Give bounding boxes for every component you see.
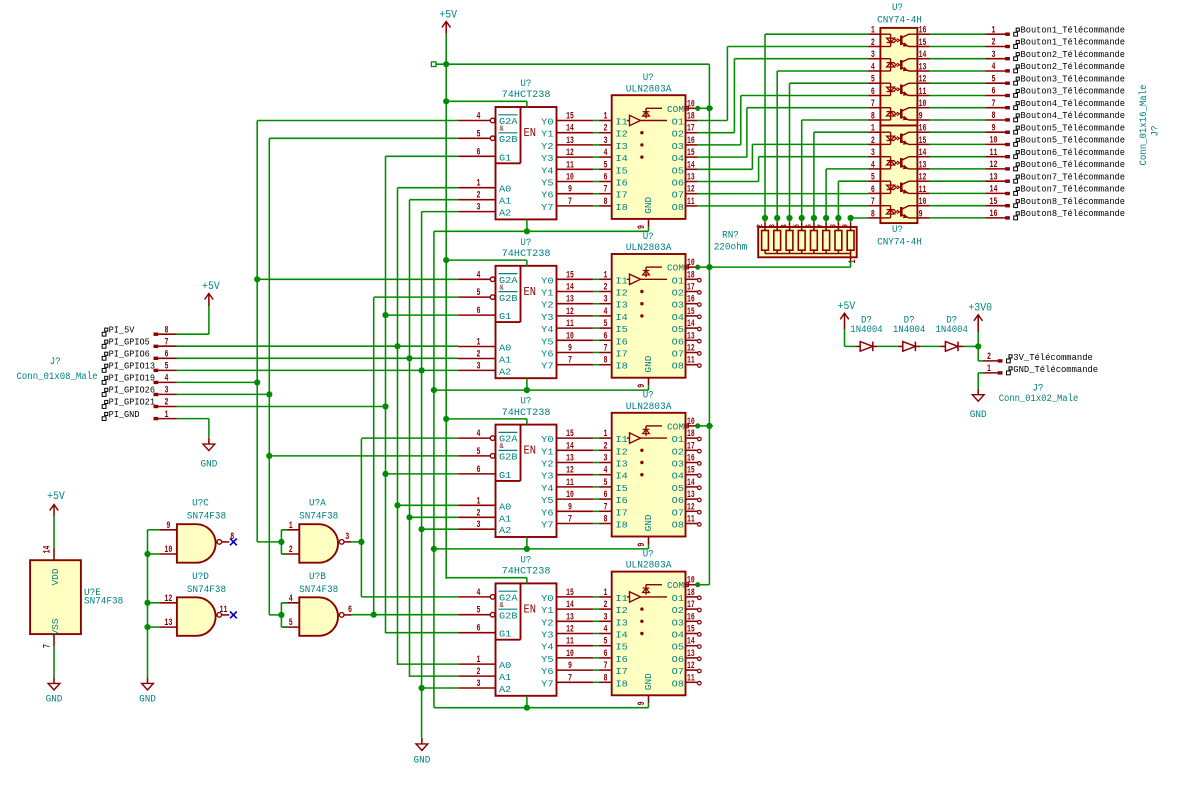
svg-text:O8: O8 (672, 678, 685, 689)
svg-text:8: 8 (165, 325, 169, 336)
svg-text:COM: COM (667, 263, 684, 274)
svg-text:I4: I4 (616, 471, 629, 482)
svg-text:12: 12 (687, 185, 695, 196)
svg-text:16: 16 (687, 454, 695, 465)
svg-text:Y6: Y6 (541, 666, 554, 677)
svg-text:14: 14 (990, 185, 998, 196)
svg-text:Y0: Y0 (541, 593, 554, 604)
svg-text:5: 5 (477, 129, 481, 140)
svg-text:15: 15 (687, 466, 695, 477)
svg-text:6: 6 (871, 185, 875, 196)
svg-text:4: 4 (477, 429, 481, 440)
svg-text:17: 17 (687, 124, 695, 135)
svg-text:1: 1 (477, 179, 481, 190)
svg-text:Bouton8_Télécommande: Bouton8_Télécommande (1021, 196, 1126, 207)
svg-text:Y5: Y5 (541, 178, 554, 189)
svg-text:G1: G1 (499, 629, 512, 640)
svg-text:15: 15 (566, 112, 574, 123)
svg-text:8: 8 (604, 197, 608, 208)
svg-text:1: 1 (289, 521, 293, 532)
svg-text:1: 1 (477, 655, 481, 666)
svg-text:Bouton6_Télécommande: Bouton6_Télécommande (1021, 159, 1126, 170)
svg-text:Conn_01x16_Male: Conn_01x16_Male (1138, 85, 1150, 166)
svg-text:G1: G1 (499, 311, 512, 322)
svg-text:5: 5 (792, 224, 802, 228)
svg-text:Bouton1_Télécommande: Bouton1_Télécommande (1021, 24, 1126, 35)
svg-text:2: 2 (165, 398, 169, 409)
svg-text:SN74F38: SN74F38 (84, 597, 123, 608)
svg-text:O4: O4 (672, 312, 685, 323)
svg-text:GND: GND (643, 355, 654, 372)
svg-text:I6: I6 (616, 495, 629, 506)
svg-text:I5: I5 (616, 483, 629, 494)
svg-text:G2B: G2B (499, 452, 518, 463)
svg-text:GND: GND (139, 695, 156, 706)
svg-text:I1: I1 (616, 593, 629, 604)
svg-text:9: 9 (637, 225, 648, 229)
svg-text:17: 17 (687, 441, 695, 452)
svg-text:Bouton7_Télécommande: Bouton7_Télécommande (1021, 184, 1126, 195)
svg-text:EN: EN (524, 127, 537, 140)
svg-text:PI_GPIO6: PI_GPIO6 (109, 349, 150, 360)
svg-text:VSS: VSS (50, 618, 61, 635)
svg-text:2: 2 (604, 600, 608, 611)
svg-text:4: 4 (477, 588, 481, 599)
svg-text:6: 6 (604, 331, 608, 342)
svg-text:15: 15 (919, 38, 927, 49)
svg-text:12: 12 (566, 148, 574, 159)
svg-text:2: 2 (604, 441, 608, 452)
svg-text:Y7: Y7 (541, 202, 553, 213)
svg-text:O3: O3 (672, 459, 685, 470)
svg-text:13: 13 (164, 618, 172, 629)
svg-text:74HCT238: 74HCT238 (502, 249, 551, 260)
svg-text:5: 5 (477, 447, 481, 458)
svg-text:13: 13 (566, 136, 574, 147)
svg-text:U?D: U?D (192, 572, 209, 583)
svg-text:1: 1 (992, 25, 996, 36)
svg-text:2: 2 (604, 124, 608, 135)
svg-text:1N4004: 1N4004 (936, 325, 968, 336)
svg-text:I4: I4 (616, 153, 629, 164)
svg-text:4: 4 (604, 148, 608, 159)
svg-text:12: 12 (164, 594, 172, 605)
svg-text:ULN2803A: ULN2803A (626, 561, 672, 572)
svg-text:1N4004: 1N4004 (893, 325, 925, 336)
svg-text:14: 14 (43, 546, 54, 554)
svg-text:15: 15 (566, 270, 574, 281)
svg-text:I7: I7 (616, 507, 628, 518)
svg-text:11: 11 (687, 673, 695, 684)
svg-text:O5: O5 (672, 324, 685, 335)
svg-text:5: 5 (871, 75, 875, 86)
svg-text:74HCT238: 74HCT238 (502, 408, 551, 419)
svg-text:10: 10 (566, 490, 574, 501)
svg-text:GND: GND (414, 756, 431, 767)
svg-text:U?: U? (520, 238, 531, 249)
svg-text:11: 11 (566, 478, 574, 489)
svg-text:Y0: Y0 (541, 117, 554, 128)
svg-text:10: 10 (566, 331, 574, 342)
svg-text:I2: I2 (616, 605, 629, 616)
svg-text:4: 4 (871, 160, 875, 171)
svg-text:13: 13 (687, 331, 695, 342)
svg-text:10: 10 (919, 99, 927, 110)
svg-text:I7: I7 (616, 190, 628, 201)
svg-text:74HCT238: 74HCT238 (502, 567, 551, 578)
svg-text:+5V: +5V (47, 491, 65, 503)
svg-text:10: 10 (566, 649, 574, 660)
svg-text:10: 10 (164, 545, 172, 556)
svg-text:14: 14 (687, 160, 695, 171)
svg-text:Y0: Y0 (541, 434, 554, 445)
svg-text:I2: I2 (616, 446, 629, 457)
svg-text:U?: U? (643, 73, 654, 84)
svg-text:COM: COM (667, 421, 684, 432)
svg-text:Y1: Y1 (541, 129, 554, 140)
svg-text:16: 16 (687, 295, 695, 306)
svg-text:4: 4 (477, 270, 481, 281)
svg-text:GND: GND (643, 673, 654, 690)
svg-text:2: 2 (477, 667, 481, 678)
svg-text:12: 12 (990, 160, 998, 171)
svg-text:G2B: G2B (499, 610, 518, 621)
svg-text:GND: GND (46, 695, 63, 706)
svg-text:16: 16 (687, 136, 695, 147)
svg-text:SN74F38: SN74F38 (299, 585, 338, 596)
svg-text:11: 11 (566, 637, 574, 648)
svg-text:6: 6 (477, 465, 481, 476)
svg-text:Bouton6_Télécommande: Bouton6_Télécommande (1021, 147, 1126, 158)
svg-text:PI_5V: PI_5V (109, 324, 135, 335)
svg-text:Y2: Y2 (541, 141, 554, 152)
svg-text:4: 4 (992, 62, 996, 73)
svg-text:EN: EN (524, 603, 537, 616)
svg-text:PI_GPIO21: PI_GPIO21 (109, 397, 156, 408)
svg-text:5: 5 (604, 478, 608, 489)
svg-text:I7: I7 (616, 666, 628, 677)
svg-text:4: 4 (871, 63, 875, 74)
svg-text:9: 9 (637, 701, 648, 705)
svg-text:15: 15 (687, 148, 695, 159)
svg-text:U?C: U?C (192, 499, 209, 510)
svg-text:11: 11 (220, 605, 228, 616)
svg-text:9: 9 (166, 521, 170, 532)
svg-text:I8: I8 (616, 202, 629, 213)
svg-text:14: 14 (919, 50, 927, 61)
svg-text:220ohm: 220ohm (714, 242, 748, 254)
svg-text:Bouton3_Télécommande: Bouton3_Télécommande (1021, 73, 1126, 84)
svg-text:8: 8 (992, 111, 996, 122)
svg-text:12: 12 (919, 75, 927, 86)
svg-text:O2: O2 (672, 129, 685, 140)
svg-text:Y2: Y2 (541, 459, 554, 470)
svg-text:13: 13 (919, 160, 927, 171)
svg-text:I1: I1 (616, 275, 629, 286)
svg-text:A0: A0 (499, 184, 512, 195)
svg-text:12: 12 (687, 502, 695, 513)
svg-text:I8: I8 (616, 520, 629, 531)
svg-text:14: 14 (687, 319, 695, 330)
svg-text:11: 11 (566, 319, 574, 330)
svg-text:8: 8 (829, 224, 839, 228)
svg-text:9: 9 (919, 112, 923, 123)
svg-text:6: 6 (871, 87, 875, 98)
svg-text:7: 7 (992, 99, 996, 110)
svg-text:O8: O8 (672, 202, 685, 213)
svg-text:O6: O6 (672, 336, 685, 347)
svg-text:16: 16 (919, 26, 927, 37)
svg-text:15: 15 (687, 625, 695, 636)
svg-text:3: 3 (477, 679, 481, 690)
svg-text:5: 5 (992, 74, 996, 85)
svg-text:Y7: Y7 (541, 678, 553, 689)
svg-text:I2: I2 (616, 129, 629, 140)
svg-text:U?: U? (520, 555, 531, 566)
svg-text:A1: A1 (499, 355, 512, 366)
svg-text:Y4: Y4 (541, 483, 554, 494)
svg-text:1: 1 (848, 260, 859, 264)
svg-text:13: 13 (566, 454, 574, 465)
svg-text:I6: I6 (616, 178, 629, 189)
svg-text:Conn_01x02_Male: Conn_01x02_Male (999, 393, 1079, 405)
svg-text:14: 14 (919, 148, 927, 159)
svg-text:J?: J? (1151, 126, 1162, 137)
svg-text:3: 3 (604, 612, 608, 623)
svg-text:5: 5 (289, 618, 293, 629)
svg-text:12: 12 (566, 307, 574, 318)
svg-text:1: 1 (871, 124, 875, 135)
svg-text:7: 7 (604, 502, 608, 513)
svg-text:Y7: Y7 (541, 520, 553, 531)
svg-text:2: 2 (755, 224, 765, 228)
svg-text:13: 13 (687, 649, 695, 660)
svg-text:12: 12 (687, 344, 695, 355)
svg-text:11: 11 (919, 185, 927, 196)
svg-text:7: 7 (604, 344, 608, 355)
svg-text:A1: A1 (499, 672, 512, 683)
svg-text:5: 5 (604, 319, 608, 330)
svg-text:I8: I8 (616, 678, 629, 689)
svg-text:G1: G1 (499, 470, 512, 481)
svg-text:12: 12 (919, 173, 927, 184)
svg-text:I1: I1 (616, 117, 629, 128)
svg-text:PI_GPIO5: PI_GPIO5 (109, 336, 150, 347)
svg-text:13: 13 (687, 173, 695, 184)
svg-text:7: 7 (604, 661, 608, 672)
svg-text:6: 6 (477, 624, 481, 635)
svg-text:7: 7 (568, 197, 572, 208)
svg-text:9: 9 (637, 543, 648, 547)
svg-text:A0: A0 (499, 660, 512, 671)
svg-text:I4: I4 (616, 630, 629, 641)
svg-text:A2: A2 (499, 366, 512, 377)
svg-text:PI_GPIO26: PI_GPIO26 (109, 385, 156, 396)
svg-text:7: 7 (871, 197, 875, 208)
svg-text:10: 10 (566, 173, 574, 184)
svg-text:+5V: +5V (202, 281, 220, 293)
svg-text:9: 9 (568, 185, 572, 196)
svg-text:6: 6 (992, 87, 996, 98)
svg-text:O6: O6 (672, 495, 685, 506)
svg-text:GND: GND (201, 460, 218, 471)
svg-text:9: 9 (637, 384, 648, 388)
svg-text:13: 13 (566, 295, 574, 306)
svg-text:Y1: Y1 (541, 446, 554, 457)
svg-text:U?B: U?B (309, 572, 326, 583)
svg-text:3: 3 (767, 224, 777, 228)
svg-text:Y1: Y1 (541, 288, 554, 299)
svg-text:G2B: G2B (499, 134, 518, 145)
svg-text:3: 3 (871, 148, 875, 159)
svg-text:A1: A1 (499, 196, 512, 207)
svg-text:14: 14 (566, 283, 574, 294)
svg-text:14: 14 (566, 124, 574, 135)
svg-text:4: 4 (604, 625, 608, 636)
svg-text:O8: O8 (672, 361, 685, 372)
svg-text:4: 4 (165, 374, 169, 385)
svg-text:8: 8 (604, 356, 608, 367)
svg-text:SN74F38: SN74F38 (187, 585, 226, 596)
svg-text:A2: A2 (499, 208, 512, 219)
svg-text:3: 3 (604, 295, 608, 306)
svg-text:15: 15 (990, 197, 998, 208)
svg-text:8: 8 (871, 209, 875, 220)
svg-text:8: 8 (604, 515, 608, 526)
svg-text:6: 6 (348, 605, 352, 616)
svg-text:3: 3 (345, 532, 349, 543)
svg-text:1N4004: 1N4004 (850, 325, 882, 336)
svg-text:O8: O8 (672, 520, 685, 531)
svg-text:Y6: Y6 (541, 349, 554, 360)
svg-text:O3: O3 (672, 141, 685, 152)
svg-text:SN74F38: SN74F38 (187, 512, 226, 523)
svg-text:6: 6 (604, 490, 608, 501)
svg-text:1: 1 (604, 270, 608, 281)
svg-text:12: 12 (566, 625, 574, 636)
svg-text:Bouton5_Télécommande: Bouton5_Télécommande (1021, 135, 1126, 146)
svg-text:EN: EN (524, 286, 537, 299)
svg-text:7: 7 (568, 673, 572, 684)
svg-text:13: 13 (919, 63, 927, 74)
svg-text:4: 4 (604, 466, 608, 477)
svg-text:GND_Télécommande: GND_Télécommande (1013, 364, 1098, 375)
svg-text:I8: I8 (616, 361, 629, 372)
svg-text:Y5: Y5 (541, 654, 554, 665)
svg-text:I3: I3 (616, 300, 629, 311)
svg-text:Y4: Y4 (541, 165, 554, 176)
svg-text:6: 6 (804, 224, 814, 228)
svg-text:1: 1 (987, 364, 991, 375)
svg-text:11: 11 (566, 160, 574, 171)
svg-text:13: 13 (687, 490, 695, 501)
svg-text:O6: O6 (672, 654, 685, 665)
svg-text:9: 9 (568, 344, 572, 355)
svg-text:14: 14 (687, 478, 695, 489)
svg-text:U?: U? (892, 3, 903, 14)
svg-text:17: 17 (687, 283, 695, 294)
svg-text:Y2: Y2 (541, 300, 554, 311)
svg-text:Y3: Y3 (541, 471, 554, 482)
svg-text:7: 7 (816, 224, 826, 228)
svg-text:O7: O7 (672, 349, 684, 360)
svg-text:14: 14 (566, 600, 574, 611)
svg-text:Bouton4_Télécommande: Bouton4_Télécommande (1021, 110, 1126, 121)
svg-text:3: 3 (604, 136, 608, 147)
svg-text:18: 18 (687, 112, 695, 123)
svg-text:7: 7 (604, 185, 608, 196)
svg-text:Bouton4_Télécommande: Bouton4_Télécommande (1021, 98, 1126, 109)
svg-text:O2: O2 (672, 605, 685, 616)
svg-text:O4: O4 (672, 471, 685, 482)
svg-text:I6: I6 (616, 336, 629, 347)
svg-text:U?: U? (643, 549, 654, 560)
svg-text:2: 2 (871, 136, 875, 147)
svg-text:9: 9 (919, 209, 923, 220)
svg-text:2: 2 (477, 508, 481, 519)
svg-text:O5: O5 (672, 483, 685, 494)
svg-text:U?: U? (643, 232, 654, 243)
svg-text:J?: J? (50, 357, 61, 368)
svg-text:U?A: U?A (309, 499, 326, 510)
svg-text:VDD: VDD (50, 568, 61, 585)
svg-text:O1: O1 (672, 275, 685, 286)
svg-text:16: 16 (687, 612, 695, 623)
svg-text:13: 13 (990, 172, 998, 183)
svg-text:11: 11 (687, 197, 695, 208)
svg-text:11: 11 (687, 515, 695, 526)
svg-text:12: 12 (687, 661, 695, 672)
svg-text:G1: G1 (499, 152, 512, 163)
svg-text:15: 15 (566, 588, 574, 599)
svg-text:+3V0: +3V0 (968, 303, 992, 315)
svg-text:7: 7 (43, 644, 54, 648)
svg-text:I1: I1 (616, 434, 629, 445)
svg-text:1: 1 (477, 338, 481, 349)
svg-text:GND: GND (643, 514, 654, 531)
svg-text:Y7: Y7 (541, 361, 553, 372)
svg-text:O1: O1 (672, 117, 685, 128)
svg-text:4: 4 (289, 594, 293, 605)
svg-text:I4: I4 (616, 312, 629, 323)
svg-text:O2: O2 (672, 446, 685, 457)
svg-text:5: 5 (871, 173, 875, 184)
svg-text:PI_GND: PI_GND (109, 409, 140, 420)
svg-text:O5: O5 (672, 642, 685, 653)
svg-text:O4: O4 (672, 630, 685, 641)
svg-text:9: 9 (992, 123, 996, 134)
svg-text:9: 9 (568, 502, 572, 513)
svg-text:O5: O5 (672, 165, 685, 176)
svg-text:EN: EN (524, 445, 537, 458)
svg-text:Y3: Y3 (541, 153, 554, 164)
svg-text:COM: COM (667, 104, 684, 115)
svg-text:I3: I3 (616, 141, 629, 152)
svg-text:5: 5 (477, 606, 481, 617)
svg-text:+5V: +5V (838, 301, 856, 313)
svg-text:8: 8 (604, 673, 608, 684)
svg-text:COM: COM (667, 580, 684, 591)
svg-text:3: 3 (604, 454, 608, 465)
svg-text:6: 6 (477, 306, 481, 317)
svg-text:RN?: RN? (722, 231, 739, 242)
svg-text:7: 7 (165, 337, 169, 348)
svg-text:18: 18 (687, 429, 695, 440)
svg-text:1: 1 (604, 429, 608, 440)
svg-text:3: 3 (477, 203, 481, 214)
svg-text:18: 18 (687, 588, 695, 599)
svg-text:15: 15 (919, 136, 927, 147)
